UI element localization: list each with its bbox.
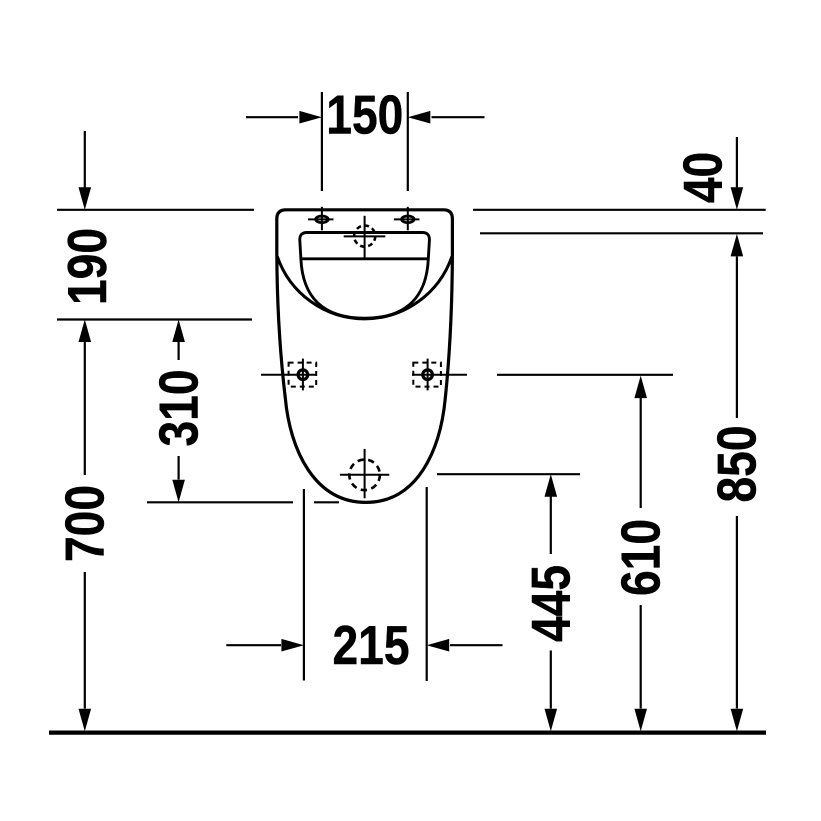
- side fixing hole left dashed square: [289, 363, 317, 387]
- dim 150 left arrow line: [246, 116, 298, 118]
- svg-text:310: 310: [148, 369, 210, 446]
- dim 150 left extension line: [321, 92, 323, 191]
- dim 215 right extension line: [426, 487, 428, 681]
- water inlet cross vertical: [364, 216, 366, 258]
- side-hole level line left segment: [261, 374, 316, 376]
- rim bottom level line (190 bottom): [57, 318, 252, 320]
- arrowhead 150 right (points left): [408, 111, 431, 124]
- arrowhead 445 top (points up): [545, 474, 558, 497]
- svg-text:215: 215: [332, 614, 409, 676]
- arrowhead 445 bottom (points down): [545, 709, 558, 732]
- arrowhead 610 bottom (points down): [634, 709, 647, 732]
- svg-text:610: 610: [610, 519, 672, 596]
- dim 215 left arrow line: [226, 644, 281, 646]
- side fixing hole right circle: [423, 370, 433, 380]
- svg-text:190: 190: [56, 228, 118, 305]
- dim 40/850 vertical line top segment: [736, 137, 738, 188]
- dim 610 vertical line upper: [640, 398, 642, 508]
- top fixing hole left cross vertical: [321, 207, 323, 231]
- svg-text:150: 150: [326, 84, 403, 146]
- side fixing hole left circle: [298, 370, 308, 380]
- top fixing hole right cross horizontal: [394, 218, 420, 220]
- top fixing hole left ellipse: [316, 216, 329, 223]
- dim 215 right arrow line: [450, 644, 503, 646]
- svg-text:850: 850: [706, 425, 768, 502]
- arrowhead 700 bottom (points down): [79, 709, 92, 732]
- drain hole cross vertical: [364, 449, 366, 498]
- dim 445 vertical line upper: [550, 497, 552, 555]
- water inlet cross horizontal: [344, 235, 386, 237]
- dim 150 right arrow line: [432, 116, 485, 118]
- arrowhead 215 left (points right): [281, 639, 304, 652]
- urinal inner bowl outline: [300, 233, 430, 319]
- dim 610 vertical line lower: [640, 605, 642, 709]
- urinal bottom level line short segment: [314, 501, 339, 503]
- dim 190 top arrow line: [84, 131, 86, 188]
- arrowhead 850 bottom (points down): [731, 709, 744, 732]
- urinal bottom level line (310 bottom) left segment: [147, 501, 293, 503]
- side fixing hole right cross vertical: [427, 359, 429, 391]
- arrowhead 610 top (points up): [634, 376, 647, 399]
- rim shelf line: [301, 257, 428, 260]
- side-hole level line right segment: [497, 374, 673, 376]
- dim 700 vertical line lower: [84, 572, 86, 709]
- top fixing hole right cross vertical: [407, 207, 409, 231]
- ground line: [49, 730, 766, 734]
- 40mm lower level line right: [480, 232, 763, 234]
- arrowhead 310 bottom (points down): [172, 480, 185, 503]
- arrowhead 700 top (points up): [79, 320, 92, 343]
- dim 310 vertical line lower: [178, 456, 180, 480]
- arrowhead 150 left (points right): [299, 111, 322, 124]
- drain hole dashed circle: [349, 460, 380, 491]
- arrowhead 215 right (points left): [427, 639, 450, 652]
- dim 700 vertical line upper: [84, 342, 86, 475]
- dim 150 right extension line: [407, 92, 409, 191]
- drain level line (445 top): [437, 473, 580, 475]
- urinal front rim arc: [277, 257, 452, 319]
- arrowhead 310 top (points up): [172, 320, 185, 343]
- wall top level line right segment: [473, 209, 766, 211]
- urinal outer outline: [277, 210, 453, 503]
- drain hole cross horizontal: [340, 474, 389, 476]
- arrowhead 850 top (points up): [731, 234, 744, 257]
- dim 850 vertical line lower: [736, 516, 738, 709]
- dim 850 vertical line upper: [736, 257, 738, 419]
- arrowhead 40 top (points down): [731, 187, 744, 210]
- top fixing hole right ellipse: [402, 216, 415, 223]
- wall top level line left segment: [57, 209, 254, 211]
- arrowhead 190 top (points down): [79, 187, 92, 210]
- dim 215 left extension line: [303, 489, 305, 681]
- svg-text:700: 700: [54, 485, 116, 562]
- svg-text:40: 40: [672, 152, 734, 203]
- top fixing hole left cross horizontal: [308, 218, 334, 220]
- water inlet dashed circle: [354, 226, 375, 247]
- dim 310 vertical line upper: [178, 342, 180, 360]
- side fixing hole left cross vertical: [302, 359, 304, 391]
- side fixing hole right dashed square: [413, 363, 441, 387]
- side-hole level line middle segment through right hole: [412, 374, 467, 376]
- svg-text:445: 445: [520, 565, 582, 642]
- dim 445 vertical line lower: [550, 651, 552, 709]
